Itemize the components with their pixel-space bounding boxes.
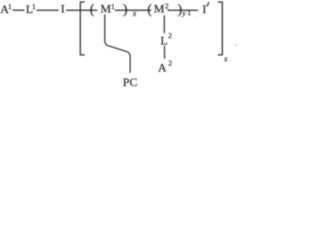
svg-text:1: 1 xyxy=(111,2,115,11)
left square bracket xyxy=(80,2,84,56)
svg-text:x: x xyxy=(132,9,137,18)
prime tick of I-prime xyxy=(207,2,209,6)
svg-text:I: I xyxy=(202,2,206,16)
svg-text:y: y xyxy=(181,9,186,18)
svg-text:M: M xyxy=(100,2,111,16)
svg-text:1: 1 xyxy=(8,2,12,11)
pendant bond L2 to A2 xyxy=(164,46,166,59)
svg-text:(: ( xyxy=(147,2,152,17)
svg-text:s: s xyxy=(224,54,227,63)
right square bracket xyxy=(218,2,222,56)
bond M1 to M2 crossing close and open parens, subscript x below xyxy=(115,9,151,11)
svg-text:2: 2 xyxy=(165,2,169,11)
svg-text:M: M xyxy=(154,2,165,16)
svg-text:L: L xyxy=(160,34,167,48)
svg-text:A: A xyxy=(158,60,167,74)
scan speck below y1 xyxy=(195,16,197,18)
scan speck right margin xyxy=(235,44,237,46)
pendant bond from M1 down with elbow to PC group xyxy=(105,14,130,73)
bond I to M1 crossing left bracket and open paren xyxy=(66,9,97,11)
bond A1-L1 xyxy=(13,9,25,11)
svg-text:1: 1 xyxy=(187,8,191,17)
svg-text:(: ( xyxy=(90,2,95,17)
bond L1-I xyxy=(37,9,59,11)
svg-text:I: I xyxy=(61,2,65,16)
pendant bond M2 to L2 xyxy=(163,15,165,33)
svg-text:2: 2 xyxy=(168,58,172,67)
svg-text:): ) xyxy=(123,2,128,17)
svg-text:2: 2 xyxy=(168,31,172,40)
svg-text:1: 1 xyxy=(32,2,36,11)
svg-text:PC: PC xyxy=(123,75,138,89)
bond M2 to I-prime crossing close paren, subscript y1 below xyxy=(168,9,199,11)
